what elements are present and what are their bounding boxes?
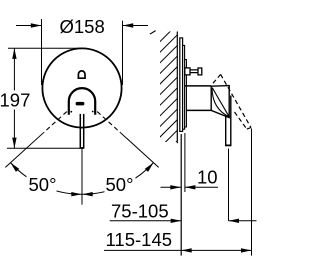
arc end arrowhead left [11,163,20,172]
lever handle cap (front view arch) [69,88,95,115]
temperature mark glyph on plate [78,71,85,78]
dim 10 left tail [161,186,181,188]
escutcheon plate circle (front view) [42,48,121,127]
handle screw dot right [92,111,94,113]
lever handle bar (side view, down position) [225,111,227,146]
197 arrow down [12,138,16,149]
cartridge housing right [210,86,212,111]
diverter knob stem [190,70,198,73]
vertical centerline below lever [81,148,83,204]
197 dimension line lower [13,110,15,149]
escutcheon plate (side view edge) [180,38,183,131]
dim 75-105 line [110,220,182,222]
lever shaft (down position) [79,114,81,148]
diverter knob base block [185,68,190,75]
wall hatching [155,11,180,163]
197 arrow up [12,48,16,59]
svg-text:197: 197 [0,89,30,110]
dashed lever end cap [247,128,251,130]
dia158 arrow left [31,23,42,27]
svg-text:115-145: 115-145 [106,229,173,250]
diverter knob cap [198,68,202,75]
extension line dashed lever tip [251,129,253,256]
arc bottom arrowhead left [71,192,81,196]
dashed lever inner edge [235,112,247,129]
sleeve cone diagonal [212,88,228,116]
dia158 arrow right [123,23,134,27]
dim 115-145 arrow left [181,248,192,252]
extension line lever bar [228,149,230,221]
197 extension line top [8,47,82,49]
angle dimension arc [11,163,154,195]
svg-text:Ø158: Ø158 [60,16,105,37]
dim 115-145 arrow right [241,248,252,252]
mounting box step 1 [183,45,185,129]
dim 115-145 line [104,249,252,251]
dia158 dimension line left tail [16,25,42,27]
handle screw dot left [70,111,72,113]
svg-text:50°: 50° [106,174,134,195]
dim 10 arrow right [185,185,196,189]
svg-text:50°: 50° [29,174,57,195]
extension line plate back [180,134,182,256]
lever swing ray right (solid part) [120,132,159,167]
dim 75-105 right tail [229,220,257,222]
dashed lever outer edge [221,74,251,127]
cartridge housing bottom [186,109,211,111]
handle slot marking [76,102,85,106]
svg-text:75-105: 75-105 [111,201,169,222]
handle sleeve cone [211,86,229,118]
extension line plate front [184,133,186,192]
arc end arrowhead right [145,163,154,172]
wall face line [176,32,178,144]
dim 75-105 arrow left [171,219,182,223]
dia158 extension line right [122,21,124,85]
197 extension line bottom [7,147,84,149]
dia158 extension line left [41,19,43,85]
svg-text:10: 10 [197,166,218,187]
mounting box step 2 [185,60,187,128]
lever swing ray left (solid part) [5,132,44,167]
dim 10 arrow left [170,185,181,189]
lever swing ray right (dashed part) [97,112,120,132]
dim 10 right tail [185,186,218,188]
dim 75-105 arrow right [229,219,240,223]
stray hatch tick top [150,31,156,35]
lever swing ray left (dashed part) [44,112,67,132]
cartridge housing top [185,85,212,87]
dashed lever cap (open position) [213,74,221,83]
197 dimension line upper [13,48,15,90]
dia158 dimension line right tail [123,25,149,27]
arc bottom arrowhead right [82,192,92,196]
sleeve cone curve [212,89,229,117]
label mask right 50 [105,174,136,193]
label mask left 50 [27,174,57,193]
